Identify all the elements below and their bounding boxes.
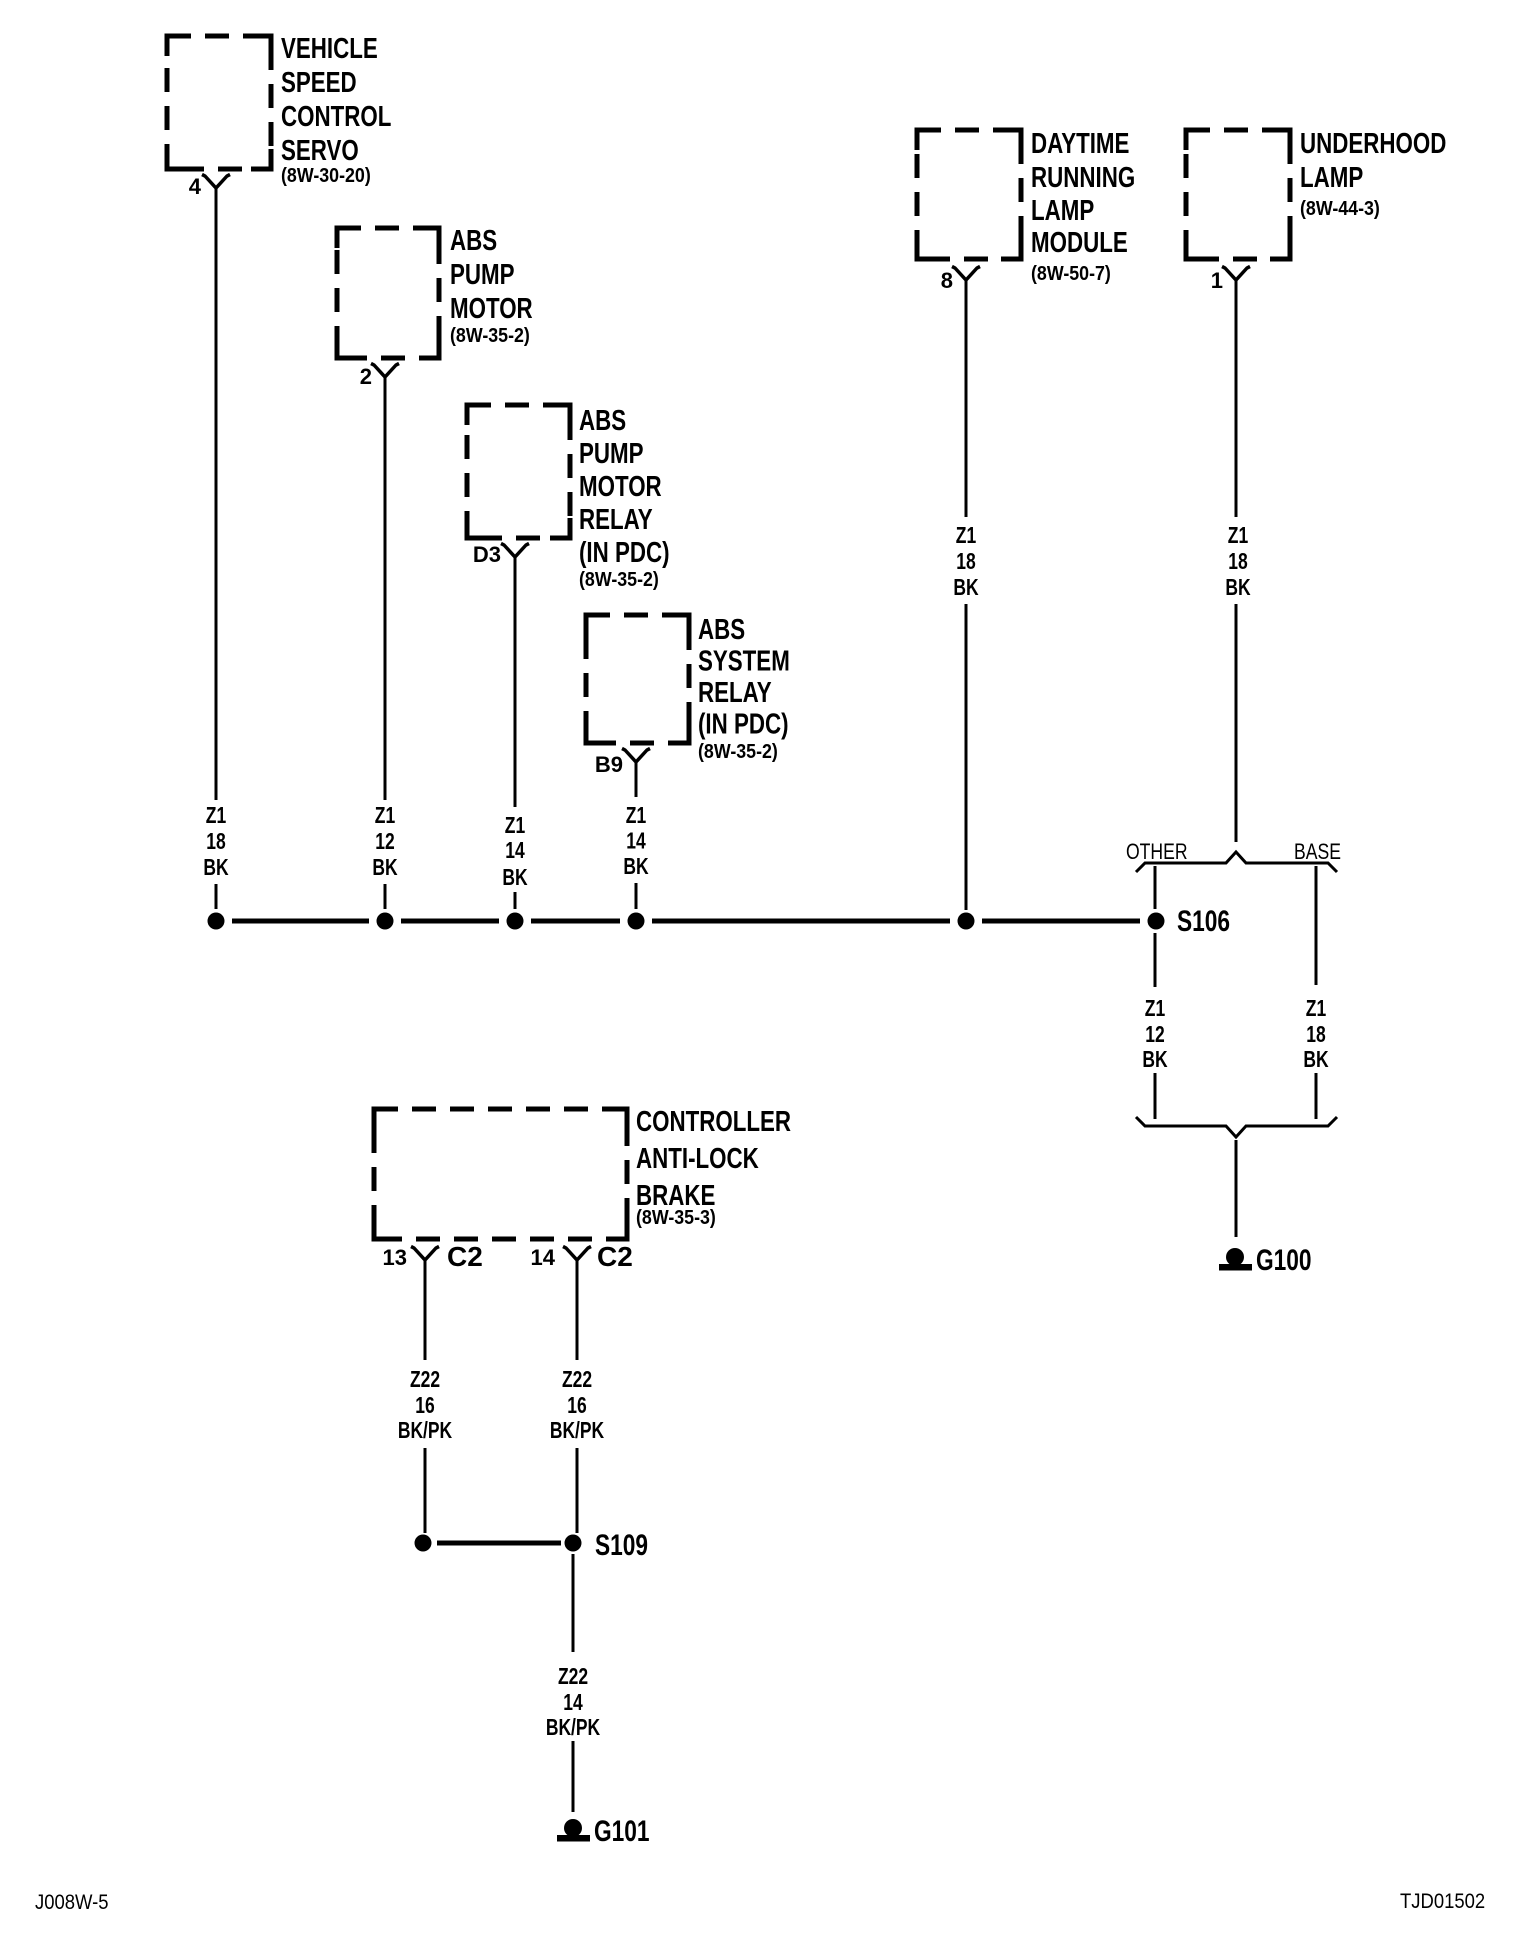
- svg-text:B9: B9: [595, 752, 623, 777]
- connector symbol pin 8: [952, 267, 980, 281]
- svg-text:SYSTEM: SYSTEM: [698, 646, 790, 677]
- svg-text:(8W-35-2): (8W-35-2): [450, 325, 530, 347]
- wire stub to splice S109 (pin 14 branch): [576, 1448, 579, 1533]
- ground G101 symbol: [557, 1819, 590, 1842]
- svg-text:OTHER: OTHER: [1126, 840, 1188, 864]
- splice S106 junction dot: [1148, 913, 1165, 930]
- svg-text:TJD01502: TJD01502: [1400, 1890, 1485, 1913]
- wire continuation to brace (underhood lamp branch): [1235, 604, 1238, 842]
- svg-text:Z1: Z1: [505, 814, 525, 839]
- splice junction dot (daytime running lamp): [958, 913, 975, 930]
- wire Z1 14 BK from pin B9 system relay: [635, 762, 638, 797]
- svg-text:16: 16: [567, 1394, 586, 1419]
- svg-text:BK/PK: BK/PK: [550, 1419, 605, 1444]
- ground label G100: [1256, 1243, 1312, 1277]
- wire from brace to S106 (OTHER side): [1154, 866, 1157, 909]
- wire to lower brace (BASE side): [1315, 1073, 1318, 1119]
- svg-text:13: 13: [383, 1245, 407, 1270]
- svg-text:14: 14: [563, 1691, 583, 1716]
- wire Z22 16 BK/PK from pin 13: [424, 1260, 427, 1360]
- wire Z1 18 BK from pin 4 servo: [215, 188, 218, 800]
- wire label Z1 18 BK (BASE side): [1303, 997, 1328, 1073]
- svg-text:Z22: Z22: [558, 1665, 588, 1690]
- wire below S109: [572, 1554, 575, 1652]
- connector symbol pin D3: [501, 544, 529, 558]
- label: ABS pump motor relay: [579, 405, 670, 591]
- svg-text:BK: BK: [1303, 1048, 1328, 1073]
- svg-text:Z1: Z1: [1306, 997, 1326, 1022]
- connector symbol pin B9: [622, 749, 650, 763]
- connector symbol pin 4: [202, 175, 230, 189]
- svg-text:Z22: Z22: [410, 1368, 440, 1393]
- svg-text:14: 14: [626, 829, 646, 854]
- svg-text:16: 16: [415, 1394, 434, 1419]
- svg-text:(8W-50-7): (8W-50-7): [1031, 263, 1111, 285]
- svg-text:RUNNING: RUNNING: [1031, 162, 1135, 193]
- splice junction dot (pump motor relay): [507, 913, 524, 930]
- svg-text:Z1: Z1: [375, 804, 395, 829]
- svg-text:18: 18: [956, 550, 975, 575]
- splice S109 junction dot: [565, 1535, 582, 1552]
- svg-text:BK: BK: [1225, 576, 1250, 601]
- svg-text:BK: BK: [623, 855, 648, 880]
- svg-text:Z1: Z1: [956, 524, 976, 549]
- svg-text:BK: BK: [372, 856, 397, 881]
- ground bus wire: [232, 919, 1140, 924]
- svg-text:14: 14: [531, 1245, 556, 1270]
- label: ABS system relay: [698, 614, 790, 763]
- sheet code J008W-5: [35, 1891, 109, 1914]
- wire Z1 12 BK from pin 2 ABS pump motor: [384, 377, 387, 800]
- svg-text:12: 12: [375, 830, 394, 855]
- svg-text:MODULE: MODULE: [1031, 227, 1128, 258]
- svg-text:C2: C2: [447, 1241, 483, 1272]
- svg-text:14: 14: [505, 839, 525, 864]
- brace OTHER/BASE split: [1136, 852, 1337, 872]
- svg-text:J008W-5: J008W-5: [35, 1891, 109, 1914]
- svg-text:MOTOR: MOTOR: [579, 471, 662, 502]
- svg-text:S109: S109: [595, 1528, 648, 1562]
- wire label Z22 14 BK/PK (to G101): [546, 1665, 601, 1741]
- label: underhood lamp: [1300, 128, 1446, 220]
- svg-text:8: 8: [941, 268, 953, 293]
- svg-text:PUMP: PUMP: [450, 259, 515, 290]
- connector symbol pin 13: [411, 1247, 439, 1261]
- svg-text:DAYTIME: DAYTIME: [1031, 128, 1129, 159]
- svg-text:ABS: ABS: [698, 614, 745, 645]
- splice junction dot (pump motor): [377, 913, 394, 930]
- svg-text:Z1: Z1: [1228, 524, 1248, 549]
- connector symbol pin 1: [1222, 267, 1250, 281]
- splice junction dot (system relay): [628, 913, 645, 930]
- svg-text:BK: BK: [953, 576, 978, 601]
- wire Z22 16 BK/PK from pin 14: [576, 1260, 579, 1360]
- svg-text:18: 18: [1306, 1023, 1325, 1048]
- label BASE: [1294, 840, 1341, 864]
- wire label Z1 18 BK (daytime running lamp branch): [953, 524, 978, 601]
- splice S109 bus wire: [437, 1541, 561, 1546]
- svg-text:SPEED: SPEED: [281, 67, 357, 98]
- svg-text:VEHICLE: VEHICLE: [281, 33, 378, 64]
- connector box: daytime running lamp module: [917, 130, 1021, 259]
- svg-text:ANTI-LOCK: ANTI-LOCK: [636, 1143, 759, 1174]
- connector box: ABS system relay: [586, 615, 689, 743]
- label: daytime running lamp module: [1031, 128, 1135, 285]
- label: vehicle speed control servo: [281, 33, 392, 187]
- wire label Z22 16 BK/PK (pin 14 branch): [550, 1368, 605, 1444]
- wire stub to splice (pump motor branch): [384, 884, 387, 909]
- label: ABS pump motor: [450, 225, 533, 347]
- svg-text:(IN PDC): (IN PDC): [579, 537, 670, 568]
- svg-text:G101: G101: [594, 1814, 650, 1848]
- svg-text:(IN PDC): (IN PDC): [698, 709, 789, 740]
- svg-text:MOTOR: MOTOR: [450, 293, 533, 324]
- wire Z1 18 BK from pin 1 underhood lamp: [1235, 280, 1238, 517]
- drawing number TJD01502: [1400, 1890, 1485, 1913]
- wire from brace (BASE side): [1315, 866, 1318, 985]
- svg-text:BK: BK: [203, 856, 228, 881]
- svg-text:Z22: Z22: [562, 1368, 592, 1393]
- connector box: underhood lamp: [1186, 130, 1290, 259]
- svg-text:CONTROL: CONTROL: [281, 101, 392, 132]
- svg-text:(8W-44-3): (8W-44-3): [1300, 198, 1380, 220]
- wire label Z1 18 BK (servo branch): [203, 804, 228, 881]
- svg-text:D3: D3: [473, 542, 501, 567]
- connector box: ABS pump motor relay: [467, 405, 570, 538]
- svg-text:CONTROLLER: CONTROLLER: [636, 1106, 791, 1137]
- wire stub to splice (system relay branch): [635, 883, 638, 909]
- svg-text:LAMP: LAMP: [1300, 162, 1363, 193]
- svg-text:LAMP: LAMP: [1031, 195, 1094, 226]
- svg-text:Z1: Z1: [206, 804, 226, 829]
- svg-text:G100: G100: [1256, 1243, 1312, 1277]
- ground label G101: [594, 1814, 650, 1848]
- wire Z1 18 BK from pin 8 daytime running lamp module: [965, 280, 968, 517]
- wire label Z1 12 BK (OTHER side): [1142, 997, 1167, 1073]
- splice junction dot (servo): [208, 913, 225, 930]
- wire label Z1 18 BK (underhood lamp branch): [1225, 524, 1250, 601]
- wire stub to splice S109 (pin 13 branch): [424, 1448, 427, 1533]
- svg-text:RELAY: RELAY: [579, 504, 653, 535]
- svg-text:BK/PK: BK/PK: [546, 1716, 601, 1741]
- connector box: vehicle speed control servo: [167, 36, 271, 169]
- svg-text:RELAY: RELAY: [698, 677, 772, 708]
- wire to lower brace (OTHER side): [1154, 1073, 1157, 1119]
- svg-text:Z1: Z1: [1145, 997, 1165, 1022]
- svg-text:BASE: BASE: [1294, 840, 1341, 864]
- wire to G101: [572, 1741, 575, 1812]
- ground G100 symbol: [1219, 1248, 1252, 1271]
- svg-text:Z1: Z1: [626, 804, 646, 829]
- connector symbol pin 2: [371, 364, 399, 378]
- svg-text:4: 4: [189, 174, 202, 199]
- svg-text:(8W-35-3): (8W-35-3): [636, 1207, 716, 1229]
- wire label Z1 14 BK (system relay branch): [623, 804, 648, 880]
- label: controller anti-lock brake: [636, 1106, 791, 1229]
- node label S106: [1177, 904, 1230, 938]
- wire label Z22 16 BK/PK (pin 13 branch): [398, 1368, 453, 1444]
- connector box: ABS pump motor: [337, 228, 439, 358]
- svg-text:PUMP: PUMP: [579, 438, 644, 469]
- node label S109: [595, 1528, 648, 1562]
- svg-text:18: 18: [1228, 550, 1247, 575]
- svg-text:SERVO: SERVO: [281, 135, 359, 166]
- svg-text:C2: C2: [597, 1241, 633, 1272]
- svg-text:18: 18: [206, 830, 225, 855]
- wire from brace to G100: [1235, 1140, 1238, 1237]
- svg-text:12: 12: [1145, 1023, 1164, 1048]
- svg-text:2: 2: [360, 364, 372, 389]
- label OTHER: [1126, 840, 1188, 864]
- svg-text:BK/PK: BK/PK: [398, 1419, 453, 1444]
- wire below S106: [1154, 933, 1157, 987]
- connector symbol pin 14: [563, 1247, 591, 1261]
- svg-text:(8W-35-2): (8W-35-2): [579, 569, 659, 591]
- brace merge to G100: [1136, 1117, 1337, 1137]
- wire stub to splice (servo branch): [215, 884, 218, 909]
- wire Z1 14 BK from pin D3 pump motor relay: [514, 557, 517, 807]
- svg-text:ABS: ABS: [579, 405, 626, 436]
- svg-text:(8W-30-20): (8W-30-20): [281, 165, 371, 187]
- svg-text:BK: BK: [502, 866, 527, 891]
- svg-text:ABS: ABS: [450, 225, 497, 256]
- svg-text:1: 1: [1211, 268, 1223, 293]
- svg-text:UNDERHOOD: UNDERHOOD: [1300, 128, 1446, 159]
- connector box: controller anti-lock brake: [374, 1109, 627, 1239]
- wire label Z1 12 BK (pump motor branch): [372, 804, 397, 881]
- svg-text:BK: BK: [1142, 1048, 1167, 1073]
- svg-text:(8W-35-2): (8W-35-2): [698, 741, 778, 763]
- wire stub to splice (pump motor relay branch): [514, 892, 517, 909]
- wire label Z1 14 BK (pump motor relay branch): [502, 814, 527, 891]
- wire continuation to splice (daytime running lamp branch): [965, 604, 968, 910]
- splice junction dot (pin 13 branch): [415, 1535, 432, 1552]
- svg-text:S106: S106: [1177, 904, 1230, 938]
